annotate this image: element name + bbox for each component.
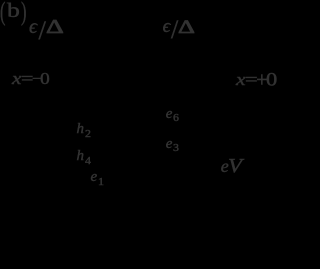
panel label (b): right paren xyxy=(21,0,30,24)
left axis label slash xyxy=(39,17,46,44)
right axis label epsilon xyxy=(163,17,171,36)
right axis label Delta xyxy=(178,18,190,37)
branch label e3 xyxy=(166,137,178,152)
right axis label slash xyxy=(171,17,178,43)
left axis label Delta xyxy=(46,17,59,37)
left axis label epsilon xyxy=(29,17,37,37)
branch label h2 xyxy=(77,122,91,137)
branch label h4 xyxy=(77,149,91,164)
bias label eV xyxy=(221,156,241,176)
panel label (b): left paren xyxy=(0,0,9,24)
panel label (b): letter b xyxy=(7,1,17,21)
branch label e1 xyxy=(91,170,104,185)
right position label x=+0 xyxy=(236,71,275,88)
branch label e6 xyxy=(166,107,178,122)
left position label x=-0 xyxy=(12,70,49,87)
